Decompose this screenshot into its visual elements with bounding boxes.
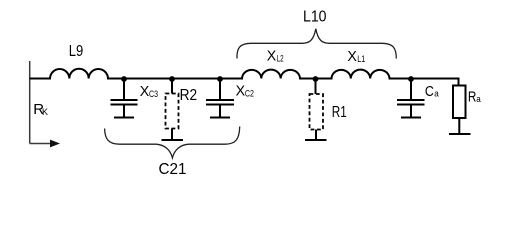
- wire: [171, 129, 173, 140]
- wire: [410, 79, 412, 100]
- junction node 4: [313, 76, 319, 82]
- plates: [206, 99, 234, 101]
- svg-text:L9: L9: [69, 43, 84, 60]
- svg-text:K: K: [42, 107, 48, 117]
- ground bar: [210, 117, 230, 119]
- svg-text:R: R: [468, 89, 477, 106]
- svg-text:X: X: [236, 83, 246, 100]
- brace L10 over XL2 XL1: [237, 29, 396, 59]
- capacitor XC2: [206, 79, 234, 118]
- svg-text:C21: C21: [159, 161, 187, 178]
- wire: [315, 130, 317, 140]
- wire: [315, 79, 317, 95]
- wire arrow shaft: [30, 143, 51, 145]
- ground bar: [162, 139, 184, 141]
- svg-text:R2: R2: [180, 87, 198, 104]
- svg-text:L2: L2: [277, 53, 284, 63]
- ground bar: [449, 133, 471, 135]
- wire: [410, 106, 412, 117]
- junction node 2: [169, 76, 175, 82]
- plates: [111, 99, 138, 101]
- body: [453, 86, 466, 119]
- ground bar: [401, 117, 421, 119]
- ground bar: [305, 139, 327, 141]
- wire: [123, 106, 125, 117]
- capacitor Ca: [397, 79, 425, 118]
- svg-text:C2: C2: [245, 88, 254, 98]
- svg-text:X: X: [140, 83, 150, 100]
- junction node 5: [408, 76, 414, 82]
- resistor R2 dashed box: [162, 79, 184, 141]
- junction node 3: [217, 76, 223, 82]
- cathode port vertical line: [29, 61, 31, 144]
- wire: [219, 79, 221, 100]
- svg-text:C3: C3: [149, 89, 158, 99]
- wire: [219, 106, 221, 117]
- resistor Ra: [449, 86, 471, 135]
- svg-text:a: a: [434, 88, 439, 98]
- svg-text:L1: L1: [357, 54, 365, 64]
- svg-text:R1: R1: [332, 104, 347, 121]
- wire: [123, 79, 125, 100]
- body: [166, 94, 179, 129]
- plates: [397, 99, 425, 101]
- resistor R1 dashed box: [305, 79, 327, 141]
- svg-text:a: a: [476, 94, 481, 104]
- svg-text:C: C: [425, 83, 434, 100]
- svg-text:X: X: [347, 48, 357, 65]
- junction node 1: [121, 76, 127, 82]
- svg-text:L10: L10: [303, 9, 327, 26]
- body: [310, 94, 324, 130]
- wire: [458, 118, 460, 133]
- arrowhead: [50, 140, 60, 148]
- capacitor XC3: [111, 79, 138, 118]
- wire main rail with inductors L9 XL2 XL1: [30, 69, 459, 86]
- wire: [171, 79, 173, 94]
- svg-text:X: X: [267, 47, 277, 64]
- ground bar: [114, 117, 134, 119]
- brace C21 under XC3 R2 XC2: [105, 127, 240, 158]
